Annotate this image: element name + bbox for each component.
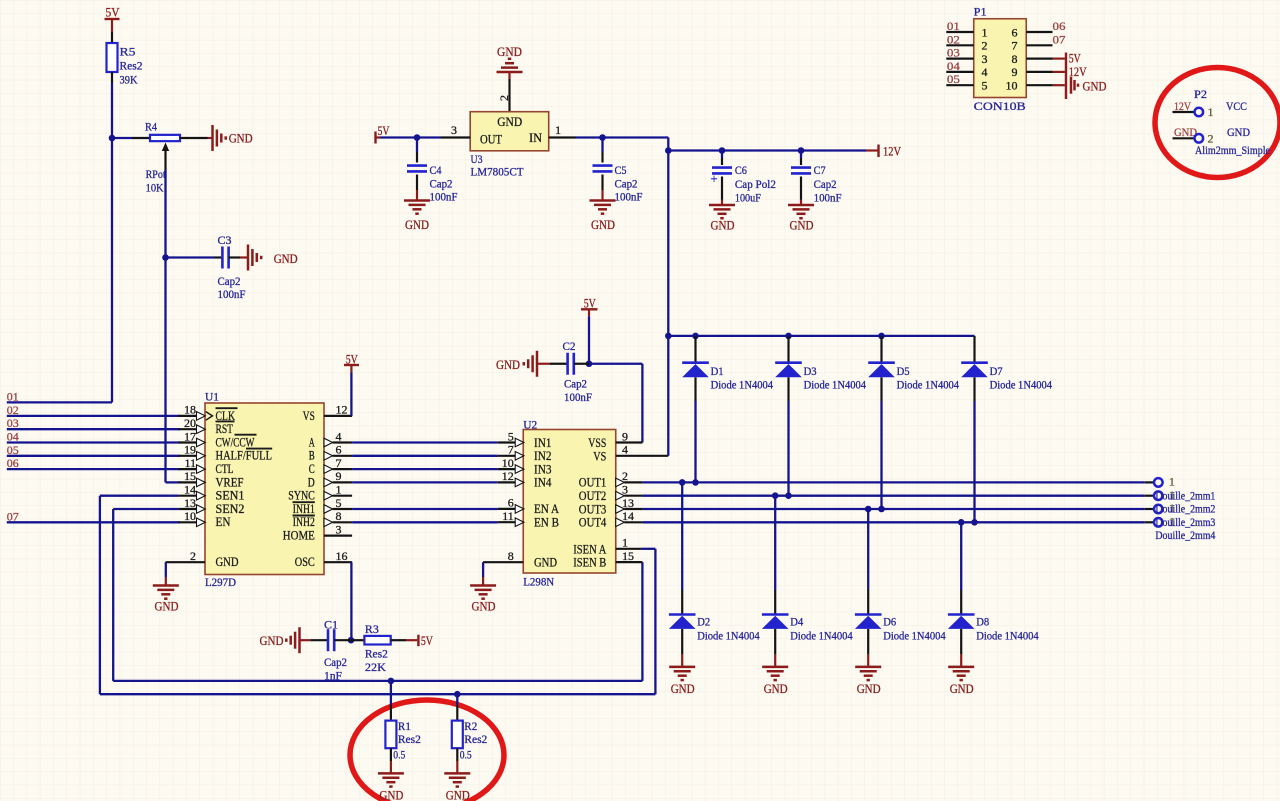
svg-text:U1: U1	[205, 390, 219, 404]
svg-text:17: 17	[184, 429, 196, 443]
svg-text:Cap2: Cap2	[615, 177, 638, 191]
svg-text:RPot: RPot	[146, 167, 167, 181]
svg-text:HALF/FULL: HALF/FULL	[216, 449, 273, 463]
svg-text:Res2: Res2	[398, 732, 421, 746]
svg-text:D3: D3	[804, 364, 817, 378]
svg-text:LM7805CT: LM7805CT	[471, 165, 525, 179]
svg-text:3: 3	[982, 52, 988, 66]
svg-text:19: 19	[184, 443, 196, 457]
svg-text:Res2: Res2	[120, 59, 143, 73]
svg-text:2: 2	[190, 549, 196, 563]
svg-text:C7: C7	[814, 163, 826, 177]
svg-text:L298N: L298N	[523, 575, 554, 589]
svg-text:CTL: CTL	[216, 462, 234, 476]
svg-text:5V: 5V	[421, 633, 433, 648]
svg-text:OSC: OSC	[295, 555, 315, 569]
svg-text:12V: 12V	[883, 144, 901, 159]
svg-text:Diode 1N4004: Diode 1N4004	[990, 378, 1053, 392]
svg-text:18: 18	[184, 403, 196, 417]
svg-text:Diode 1N4004: Diode 1N4004	[711, 378, 774, 392]
svg-text:6: 6	[508, 496, 514, 510]
svg-text:IN4: IN4	[534, 475, 552, 490]
svg-text:10: 10	[184, 509, 196, 523]
svg-text:D7: D7	[990, 364, 1003, 378]
svg-text:8: 8	[1012, 52, 1018, 66]
svg-text:Douille_2mm4: Douille_2mm4	[1155, 528, 1215, 542]
svg-text:100nF: 100nF	[564, 390, 592, 404]
svg-text:VS: VS	[593, 448, 606, 463]
svg-text:EN B: EN B	[534, 515, 559, 530]
svg-text:Diode 1N4004: Diode 1N4004	[790, 628, 853, 642]
svg-text:GND: GND	[790, 218, 814, 233]
svg-text:8: 8	[336, 509, 342, 523]
svg-text:1: 1	[622, 536, 628, 550]
svg-text:GND: GND	[229, 131, 253, 146]
svg-text:C3: C3	[218, 233, 232, 247]
svg-text:Diode 1N4004: Diode 1N4004	[804, 378, 867, 392]
svg-text:3: 3	[451, 123, 457, 137]
svg-text:C2: C2	[563, 339, 576, 353]
svg-text:100nF: 100nF	[615, 190, 643, 204]
svg-text:INH1: INH1	[293, 502, 315, 516]
svg-text:D5: D5	[897, 364, 910, 378]
svg-text:10: 10	[1006, 79, 1018, 93]
svg-text:Res2: Res2	[464, 732, 487, 746]
svg-text:Diode 1N4004: Diode 1N4004	[897, 378, 960, 392]
svg-text:GND: GND	[216, 554, 239, 569]
svg-text:13: 13	[622, 496, 634, 510]
svg-text:15: 15	[184, 469, 196, 483]
svg-text:GND: GND	[1227, 125, 1250, 139]
svg-text:3: 3	[336, 522, 342, 536]
svg-text:Cap2: Cap2	[218, 274, 241, 288]
svg-text:7: 7	[336, 456, 342, 470]
svg-text:GND: GND	[857, 681, 881, 696]
svg-text:GND: GND	[591, 217, 615, 232]
svg-text:GND: GND	[1083, 79, 1107, 94]
svg-text:C5: C5	[615, 163, 627, 177]
svg-text:5: 5	[508, 429, 514, 443]
svg-text:8: 8	[508, 549, 514, 563]
svg-text:INH2: INH2	[293, 515, 315, 529]
svg-text:11: 11	[184, 456, 196, 470]
svg-text:GND: GND	[497, 44, 522, 59]
svg-text:HOME: HOME	[283, 529, 315, 543]
svg-text:Diode 1N4004: Diode 1N4004	[883, 628, 946, 642]
svg-text:CON10B: CON10B	[974, 99, 1026, 113]
svg-text:SEN2: SEN2	[216, 502, 245, 516]
svg-text:0.5: 0.5	[393, 748, 405, 762]
svg-text:C6: C6	[735, 163, 747, 177]
svg-text:9: 9	[336, 469, 342, 483]
svg-text:VCC: VCC	[1226, 99, 1247, 113]
svg-text:100uF: 100uF	[735, 191, 761, 205]
svg-text:Douille_2mm3: Douille_2mm3	[1155, 515, 1215, 529]
svg-text:GND: GND	[711, 218, 735, 233]
svg-text:OUT4: OUT4	[579, 515, 607, 530]
svg-text:GND: GND	[379, 788, 403, 801]
svg-text:7: 7	[508, 443, 514, 457]
svg-text:39K: 39K	[120, 73, 138, 87]
svg-text:C4: C4	[430, 163, 442, 177]
svg-text:P1: P1	[974, 5, 987, 19]
svg-text:Cap Pol2: Cap Pol2	[735, 177, 776, 191]
svg-text:Douille_2mm1: Douille_2mm1	[1155, 488, 1215, 502]
svg-text:D2: D2	[697, 614, 710, 628]
svg-text:Douille_2mm2: Douille_2mm2	[1155, 502, 1215, 516]
svg-text:CW/CCW: CW/CCW	[216, 435, 255, 449]
svg-text:1: 1	[1169, 475, 1175, 489]
svg-text:L297D: L297D	[205, 575, 236, 589]
svg-text:9: 9	[1012, 65, 1018, 79]
svg-text:1: 1	[982, 25, 988, 39]
svg-text:GND: GND	[534, 555, 557, 570]
svg-text:+: +	[711, 173, 718, 188]
svg-text:4: 4	[336, 429, 342, 443]
svg-text:10: 10	[502, 456, 514, 470]
svg-text:7: 7	[1012, 39, 1018, 53]
svg-text:GND: GND	[950, 681, 974, 696]
svg-text:Cap2: Cap2	[814, 177, 837, 191]
svg-text:OUT: OUT	[480, 132, 502, 147]
svg-text:GND: GND	[274, 251, 298, 266]
svg-text:5V: 5V	[106, 5, 121, 20]
svg-text:9: 9	[622, 429, 628, 443]
svg-text:SYNC: SYNC	[288, 489, 315, 503]
svg-text:D: D	[308, 475, 315, 489]
svg-text:20: 20	[184, 416, 196, 430]
svg-text:100nF: 100nF	[218, 287, 246, 301]
svg-text:15: 15	[622, 549, 634, 563]
svg-text:IN: IN	[529, 130, 543, 145]
svg-text:4: 4	[982, 65, 988, 79]
svg-text:RST: RST	[216, 422, 234, 436]
svg-text:B: B	[309, 449, 315, 463]
svg-text:Cap2: Cap2	[430, 177, 453, 191]
svg-text:GND: GND	[496, 357, 520, 372]
svg-text:R3: R3	[365, 622, 379, 636]
svg-text:6: 6	[336, 443, 342, 457]
svg-text:6: 6	[1012, 25, 1018, 39]
svg-text:12: 12	[336, 403, 348, 417]
svg-text:01: 01	[947, 19, 960, 33]
svg-text:04: 04	[947, 59, 960, 73]
svg-text:1: 1	[336, 483, 342, 497]
svg-text:Cap2: Cap2	[564, 377, 587, 391]
svg-text:Alim2mm_Simple: Alim2mm_Simple	[1195, 143, 1270, 157]
svg-text:07: 07	[1053, 32, 1066, 46]
svg-text:2: 2	[982, 39, 988, 53]
svg-text:GND: GND	[405, 217, 429, 232]
svg-text:R4: R4	[145, 120, 157, 134]
svg-text:14: 14	[184, 483, 196, 497]
svg-text:SEN1: SEN1	[216, 489, 245, 503]
svg-text:GND: GND	[472, 599, 496, 614]
svg-text:P2: P2	[1194, 87, 1207, 101]
svg-text:5: 5	[982, 79, 988, 93]
svg-text:D4: D4	[790, 614, 803, 628]
svg-text:D8: D8	[976, 614, 989, 628]
svg-text:D1: D1	[711, 364, 724, 378]
svg-text:1: 1	[1208, 105, 1214, 119]
svg-text:5: 5	[336, 496, 342, 510]
svg-text:A: A	[309, 435, 315, 449]
svg-text:EN: EN	[216, 515, 231, 529]
svg-text:4: 4	[622, 443, 628, 457]
svg-text:100nF: 100nF	[430, 190, 458, 204]
svg-text:C1: C1	[324, 618, 338, 632]
svg-text:14: 14	[622, 509, 634, 523]
svg-text:5V: 5V	[378, 123, 390, 138]
svg-text:03: 03	[947, 46, 960, 60]
svg-text:Diode 1N4004: Diode 1N4004	[976, 628, 1038, 642]
svg-text:11: 11	[502, 509, 514, 523]
svg-text:13: 13	[184, 496, 196, 510]
svg-text:D6: D6	[883, 614, 896, 628]
svg-text:2: 2	[497, 95, 511, 101]
svg-text:GND: GND	[671, 681, 695, 696]
svg-text:C: C	[309, 462, 315, 476]
svg-text:16: 16	[336, 549, 348, 563]
svg-text:Res2: Res2	[365, 647, 388, 661]
svg-text:06: 06	[1053, 19, 1066, 33]
svg-text:GND: GND	[446, 788, 470, 801]
svg-text:R5: R5	[120, 45, 136, 59]
svg-text:1: 1	[555, 123, 561, 137]
svg-text:Cap2: Cap2	[324, 655, 347, 669]
svg-text:GND: GND	[260, 633, 284, 648]
svg-text:02: 02	[947, 32, 960, 46]
svg-text:0.5: 0.5	[460, 748, 472, 762]
svg-text:GND: GND	[155, 599, 179, 614]
svg-text:100nF: 100nF	[814, 191, 842, 205]
svg-text:22K: 22K	[365, 660, 386, 674]
svg-text:GND: GND	[764, 681, 788, 696]
svg-text:ISEN B: ISEN B	[573, 555, 606, 570]
svg-text:05: 05	[947, 72, 960, 86]
svg-text:VS: VS	[303, 409, 315, 423]
svg-text:10K: 10K	[146, 181, 164, 195]
svg-text:VREF: VREF	[216, 475, 244, 489]
svg-text:Diode 1N4004: Diode 1N4004	[697, 628, 760, 642]
svg-text:GND: GND	[497, 114, 522, 129]
svg-text:12: 12	[502, 469, 514, 483]
